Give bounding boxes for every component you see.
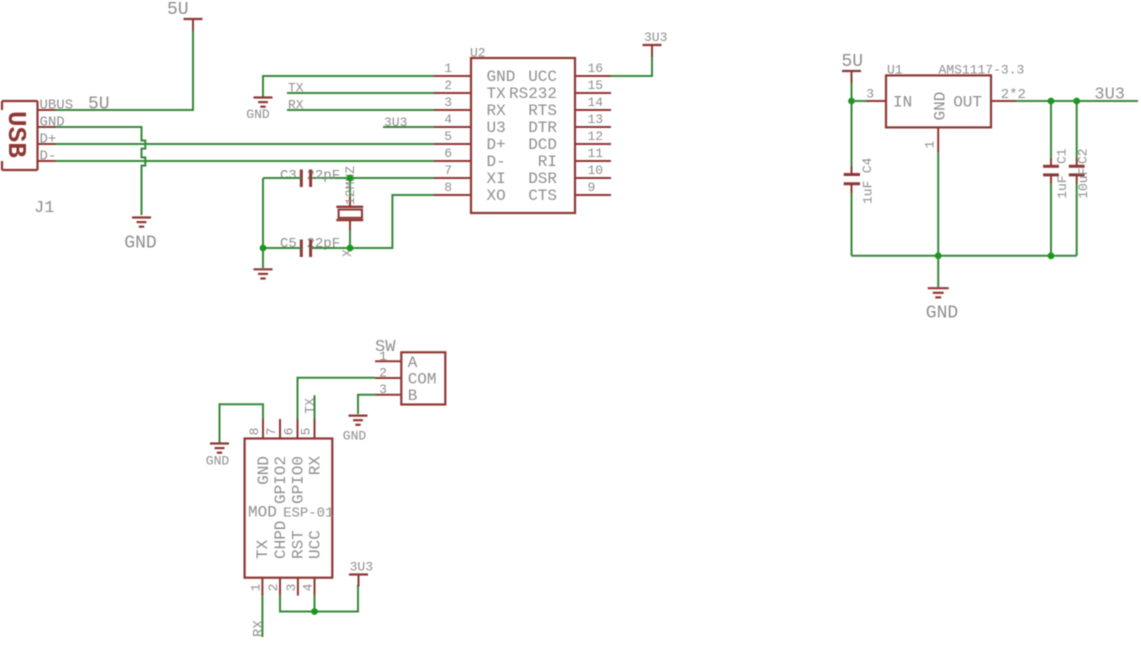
svg-text:RS232: RS232 [509, 85, 557, 103]
svg-text:C3: C3 [280, 168, 297, 184]
svg-text:16: 16 [588, 61, 604, 76]
svg-text:TX: TX [254, 539, 272, 559]
svg-text:5U: 5U [842, 52, 864, 72]
pin 11 of U2 [575, 146, 611, 161]
pin 8 of U2 [434, 180, 471, 195]
node ESP vcc junction [311, 608, 318, 615]
svg-text:MOD: MOD [248, 504, 277, 522]
svg-text:OUT: OUT [953, 94, 982, 112]
svg-text:13: 13 [588, 112, 604, 127]
svg-text:C5: C5 [280, 236, 297, 252]
svg-text:DCD: DCD [528, 136, 557, 154]
pin 1 GND bottom of U1 [923, 128, 939, 153]
svg-text:GPIO0: GPIO0 [289, 456, 307, 504]
connector J1 USB [1, 101, 38, 170]
svg-text:11: 11 [588, 146, 604, 161]
svg-text:UCC: UCC [528, 68, 557, 86]
supply 5V at U1 [842, 52, 864, 83]
wire ground rail [852, 255, 1077, 257]
pin 7 of U2 [434, 163, 471, 178]
wire crystal top node to U2 pin7 [311, 177, 434, 179]
svg-text:4: 4 [301, 583, 316, 591]
pin 5 of U2 [434, 129, 471, 144]
svg-text:14: 14 [588, 95, 604, 110]
svg-text:U2: U2 [470, 46, 486, 61]
svg-text:CTS: CTS [528, 187, 557, 205]
svg-text:IN: IN [893, 94, 912, 112]
svg-text:D+: D+ [40, 132, 57, 148]
pin 9 of U2 [575, 180, 611, 195]
wire OUT to 3V3 [1016, 100, 1138, 102]
pin 3 of U2 [434, 95, 471, 110]
svg-text:D-: D- [40, 149, 57, 165]
svg-text:RI: RI [538, 153, 557, 171]
pin 10 of U2 [575, 163, 611, 178]
wire net TX to U2 pin2 [287, 92, 434, 94]
pin D+ of J1 [38, 132, 57, 148]
pin 1 of U2 [434, 61, 471, 76]
pin GND of J1 [38, 115, 65, 131]
ground under USB [124, 218, 156, 254]
svg-text:1uF: 1uF [861, 181, 876, 204]
svg-text:UBUS: UBUS [40, 98, 74, 114]
svg-text:10uF: 10uF [1076, 168, 1091, 199]
svg-text:CHPD: CHPD [272, 521, 290, 559]
pin 2 OUT of U1 [953, 87, 1026, 112]
svg-text:GND: GND [343, 429, 367, 444]
svg-text:8: 8 [247, 428, 262, 436]
pin 2 of U2 [434, 78, 471, 93]
svg-text:3U3: 3U3 [1094, 86, 1125, 105]
node C5 left junction [260, 245, 267, 252]
node crystal bottom junction [347, 245, 354, 252]
pin D- of J1 [38, 149, 57, 165]
svg-text:A: A [408, 354, 418, 372]
pin 3 IN of U1 [866, 87, 912, 112]
svg-text:RX: RX [288, 98, 304, 113]
svg-text:COM: COM [408, 370, 437, 388]
svg-text:U3: U3 [487, 119, 506, 137]
svg-text:TX: TX [487, 85, 507, 103]
svg-text:GND: GND [487, 68, 516, 86]
node rail-U1gnd [935, 252, 942, 259]
svg-text:RX: RX [487, 102, 507, 120]
svg-text:15: 15 [588, 78, 604, 93]
pin 4 of U2 [434, 112, 471, 127]
ground at switch [343, 416, 368, 444]
svg-text:1uF: 1uF [1055, 175, 1070, 198]
wire ESP pin6 to switch COM [298, 378, 376, 419]
wire C5 right to crystal bottom [311, 247, 350, 249]
svg-text:2: 2 [379, 366, 387, 381]
ground near TX [246, 98, 272, 123]
svg-text:10: 10 [588, 163, 604, 178]
node C1 top [1048, 98, 1055, 105]
node rail-C1 [1048, 252, 1055, 259]
wire to crystal ground [262, 248, 264, 268]
svg-text:4: 4 [444, 112, 452, 127]
wire C5 left [263, 247, 301, 249]
svg-text:D-: D- [487, 153, 506, 171]
pin 12 of U2 [575, 129, 611, 144]
capacitor C5 [280, 236, 340, 257]
svg-text:XO: XO [487, 187, 506, 205]
regulator U1 box [886, 75, 991, 127]
pin 13 of U2 [575, 112, 611, 127]
pin 3 B of SW [375, 382, 417, 405]
capacitor C2 [1069, 101, 1091, 256]
svg-text:1: 1 [923, 141, 938, 149]
svg-text:12: 12 [588, 129, 604, 144]
pin 6 of U2 [434, 146, 471, 161]
pin 14 of U2 [575, 95, 611, 110]
wire C3 left to vertical [263, 177, 301, 179]
svg-text:C2: C2 [1076, 148, 1091, 164]
pin VBUS of J1 [38, 98, 74, 114]
svg-text:C1: C1 [1055, 148, 1070, 164]
capacitor C3 [280, 168, 340, 187]
wire net 3V3 to U2 pin4 [383, 126, 434, 128]
svg-text:7: 7 [444, 163, 452, 178]
supply 3V3 at ESP [349, 560, 373, 587]
pin 16 of U2 [575, 61, 611, 76]
wire ESP pin2 to 3V3 rail [280, 585, 358, 612]
wire node to U1 pin3 [852, 100, 867, 102]
svg-text:DTR: DTR [528, 119, 557, 137]
svg-text:1: 1 [444, 61, 452, 76]
svg-text:RX: RX [251, 620, 267, 637]
op-amp U2 box [471, 58, 575, 213]
svg-text:3U3: 3U3 [644, 30, 667, 45]
svg-text:U1: U1 [887, 63, 903, 78]
pin 3 of ESP-01 [284, 578, 299, 596]
svg-text:RX: RX [306, 456, 324, 476]
svg-text:TX: TX [288, 81, 304, 96]
svg-text:J1: J1 [34, 199, 54, 218]
wire left vertical C3 to C5 [262, 178, 264, 248]
supply 3V3 at U2 [643, 30, 668, 57]
pin 4 of ESP-01 [301, 578, 316, 596]
svg-text:2: 2 [266, 584, 281, 592]
svg-text:XI: XI [487, 170, 506, 188]
svg-text:GND: GND [124, 234, 156, 254]
svg-text:GND: GND [246, 107, 270, 122]
pin 2 of ESP-01 [266, 578, 281, 596]
switch SW box [401, 352, 445, 404]
svg-text:3: 3 [379, 382, 387, 397]
svg-text:C4: C4 [860, 157, 875, 173]
wire net RX to U2 pin3 [287, 109, 434, 111]
pin 6 of ESP-01 [282, 419, 298, 439]
wire stub TX at ESP pin5 [314, 395, 316, 419]
svg-text:1: 1 [248, 583, 263, 591]
wire ESP pin4 to rail [314, 596, 316, 612]
capacitor C1 [1043, 101, 1070, 256]
capacitor C4 [844, 101, 876, 256]
svg-text:5U: 5U [167, 0, 189, 20]
crystal Q1 12MHz [336, 178, 363, 248]
pin 8 of ESP-01 [247, 419, 263, 439]
svg-text:9: 9 [588, 180, 596, 195]
svg-text:AMS1117-3.3: AMS1117-3.3 [939, 63, 1025, 78]
pin 7 of ESP-01 [264, 419, 280, 439]
svg-text:D+: D+ [487, 136, 506, 154]
wire VBUS to 5V [56, 31, 194, 110]
wire D- to U2 pin6 [56, 160, 435, 162]
pin 1 A of SW [375, 349, 418, 372]
svg-text:GPIO2: GPIO2 [272, 456, 290, 504]
wire U1 gnd down [937, 153, 939, 256]
pin 2 COM of SW [375, 366, 436, 389]
svg-text:GND: GND [255, 456, 273, 485]
svg-text:B: B [408, 387, 418, 405]
svg-text:TX: TX [302, 398, 317, 414]
svg-text:5: 5 [444, 129, 452, 144]
svg-text:ESP-01: ESP-01 [283, 506, 333, 522]
svg-text:7: 7 [264, 428, 279, 436]
svg-text:1: 1 [379, 349, 387, 364]
wire USB GND with hops [56, 127, 146, 215]
svg-text:GND: GND [40, 115, 65, 131]
svg-text:6: 6 [282, 428, 297, 436]
wire ESP pin1 RX [261, 596, 263, 637]
wire 5V to node [851, 83, 853, 101]
pin 15 of U2 [575, 78, 611, 93]
svg-text:3U3: 3U3 [384, 115, 407, 130]
svg-text:6: 6 [444, 146, 452, 161]
node 5V junction [848, 98, 855, 105]
module MOD ESP-01 box [245, 439, 333, 578]
svg-text:GND: GND [206, 454, 230, 469]
pin 5 of ESP-01 [299, 419, 315, 439]
wire SW pin3 to ground [358, 395, 375, 414]
wire crystal bottom to U2 pin8 [350, 195, 434, 248]
ground at ESP pin8 [206, 444, 230, 469]
supply 5V top-left [167, 0, 203, 31]
svg-text:DSR: DSR [528, 170, 557, 188]
wire U2 pin1 to ground [263, 76, 434, 97]
ground at regulator [926, 288, 958, 323]
svg-text:3: 3 [866, 87, 874, 102]
ground at crystal [254, 268, 273, 270]
svg-text:3U3: 3U3 [350, 560, 373, 575]
svg-text:UCC: UCC [306, 530, 324, 559]
svg-text:12MHZ: 12MHZ [343, 166, 358, 205]
pin 1 of ESP-01 [248, 578, 263, 596]
svg-text:3: 3 [444, 95, 452, 110]
node crystal top junction [347, 175, 354, 182]
svg-text:GND: GND [926, 304, 958, 324]
svg-text:GND: GND [932, 92, 950, 121]
wire D+ to U2 pin5 [56, 143, 435, 145]
svg-text:8: 8 [444, 180, 452, 195]
svg-text:5U: 5U [88, 95, 110, 115]
svg-text:RST: RST [290, 530, 308, 559]
svg-text:5: 5 [299, 428, 314, 436]
wire U2 pin16 to 3V3 [611, 57, 652, 76]
wire ESP pin8 to ground [220, 404, 264, 443]
svg-text:3: 3 [284, 584, 299, 592]
svg-text:2: 2 [444, 78, 452, 93]
svg-text:USB: USB [1, 111, 31, 158]
node C2 top [1073, 98, 1080, 105]
svg-text:RTS: RTS [528, 102, 557, 120]
wire rail to ground [937, 256, 939, 287]
